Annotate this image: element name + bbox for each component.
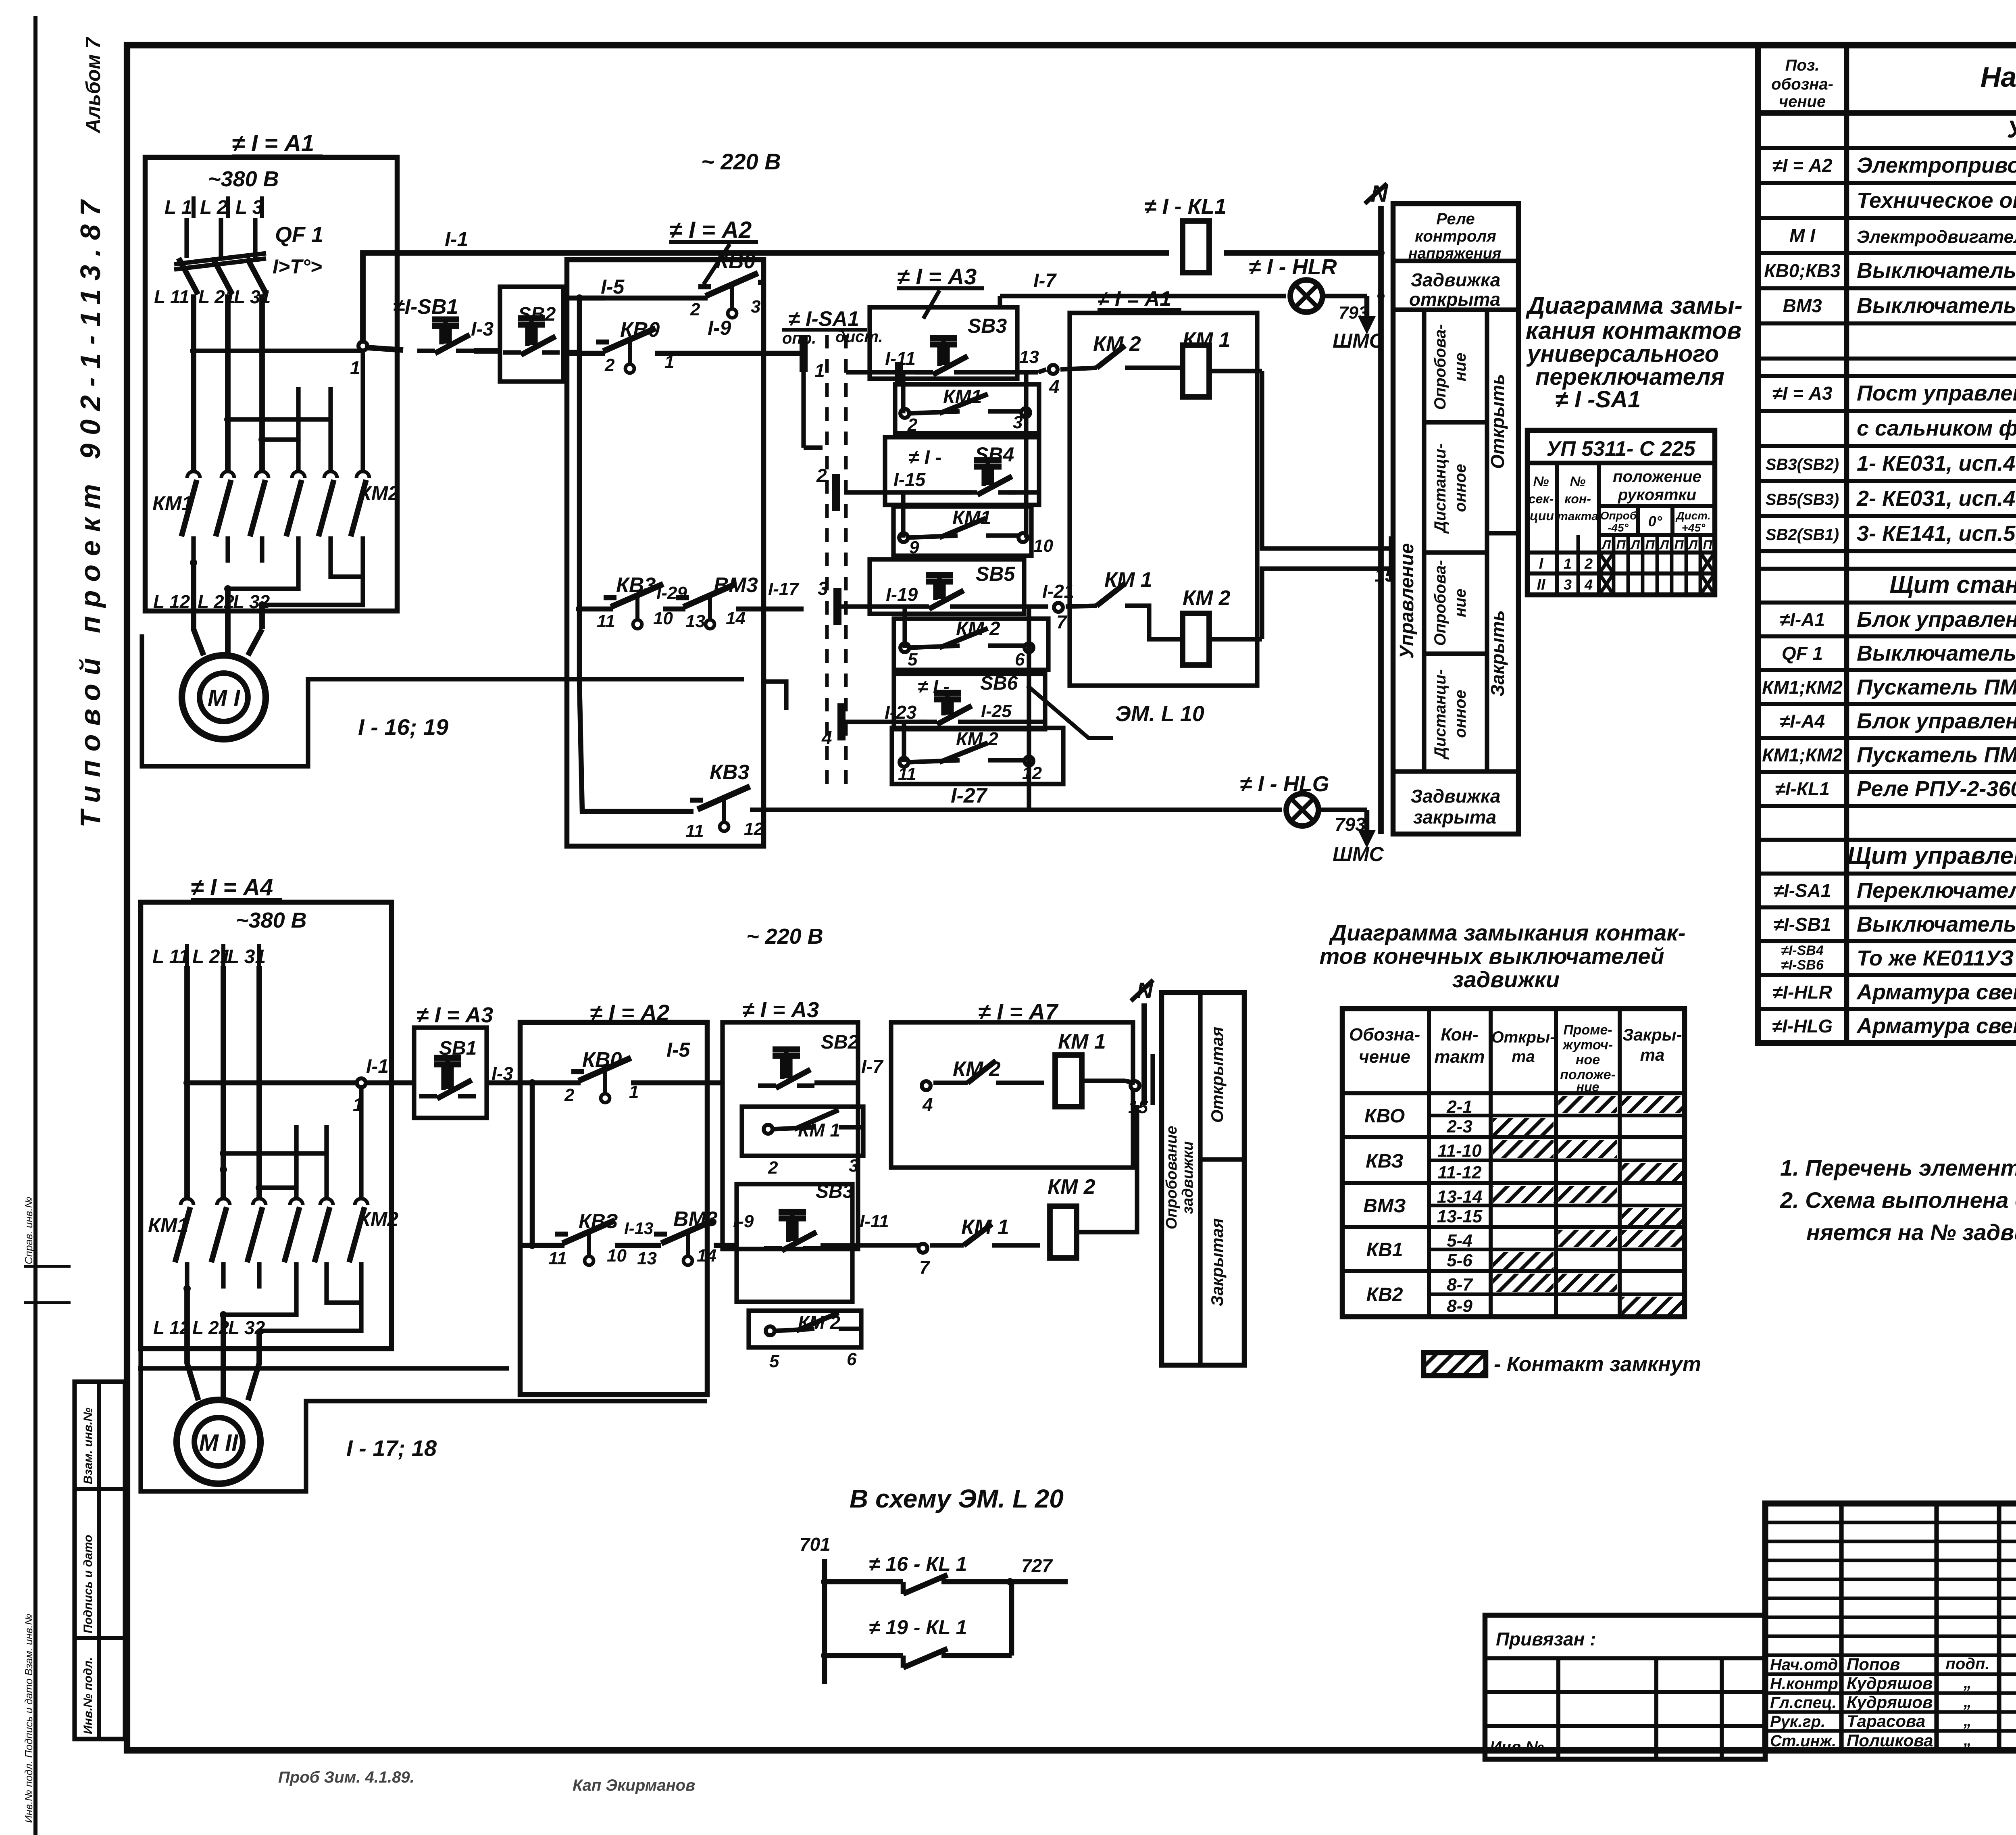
svg-text:КМ 2: КМ 2: [953, 1057, 1001, 1081]
svg-text:~ 220 В: ~ 220 В: [701, 149, 781, 174]
svg-text:I-9: I-9: [708, 317, 731, 339]
svg-text:3: 3: [1013, 413, 1023, 432]
svg-text:КМ1;КМ2: КМ1;КМ2: [1762, 744, 1843, 765]
svg-text:2-3: 2-3: [1446, 1117, 1472, 1136]
svg-text:положение: положение: [1613, 468, 1702, 486]
svg-text:Пускатель ПМА150104В, ~220В: Пускатель ПМА150104В, ~220В: [1857, 743, 2016, 767]
svg-text:ЭМ. L 10: ЭМ. L 10: [1115, 702, 1204, 726]
svg-text:№: №: [1533, 474, 1549, 489]
svg-text:ции: ции: [1530, 509, 1554, 523]
svg-text:727: 727: [1021, 1555, 1053, 1576]
svg-text:Рук.гр.: Рук.гр.: [1770, 1713, 1825, 1731]
svg-text:6: 6: [1015, 650, 1025, 669]
svg-text:≠I-HLG: ≠I-HLG: [1772, 1016, 1833, 1036]
svg-text:Дистанци-: Дистанци-: [1431, 669, 1449, 759]
svg-text:КМ 1: КМ 1: [1058, 1030, 1106, 1053]
svg-text:I - 17; 18: I - 17; 18: [346, 1435, 437, 1461]
svg-text:0°: 0°: [1648, 513, 1662, 530]
svg-text:5-6: 5-6: [1447, 1251, 1472, 1270]
svg-text:≠I-SB1: ≠I-SB1: [393, 295, 458, 319]
svg-text:Закрыть: Закрыть: [1487, 610, 1508, 696]
svg-text:П: П: [1703, 538, 1712, 552]
svg-text:ШМС: ШМС: [1333, 843, 1384, 865]
svg-text:3: 3: [818, 578, 828, 599]
svg-text:1: 1: [350, 357, 360, 378]
svg-text:≠I = А2: ≠I = А2: [1772, 155, 1833, 176]
svg-text:Реле РПУ-2-36020УЗБ, 2р.конт.,: Реле РПУ-2-36020УЗБ, 2р.конт.,~220В: [1857, 777, 2016, 801]
svg-text:8-7: 8-7: [1447, 1275, 1473, 1295]
svg-text:1: 1: [814, 360, 825, 381]
svg-text:Выключатель конечный: Выключатель конечный: [1857, 259, 2016, 283]
svg-text:2: 2: [816, 465, 827, 486]
svg-text:КВ0: КВ0: [620, 318, 660, 342]
svg-text:≠ 16 - КL 1: ≠ 16 - КL 1: [869, 1553, 967, 1575]
svg-text:≠I = А3: ≠I = А3: [1772, 383, 1833, 404]
svg-text:„: „: [1963, 1693, 1972, 1711]
svg-text:КВ3: КВ3: [616, 573, 656, 597]
svg-text:КМ 1: КМ 1: [961, 1216, 1009, 1239]
svg-text:3- КЕ141, исп.5, к „стоп”: 3- КЕ141, исп.5, к „стоп”: [1857, 521, 2016, 546]
svg-text:SB2: SB2: [821, 1032, 859, 1053]
svg-text:Закры-: Закры-: [1622, 1025, 1682, 1044]
svg-text:11: 11: [898, 764, 916, 784]
svg-text:„: „: [1963, 1674, 1972, 1692]
svg-text:ние: ние: [1452, 353, 1469, 382]
svg-text:≠I-SB6: ≠I-SB6: [1781, 957, 1824, 973]
svg-text:QF 1: QF 1: [1782, 643, 1823, 664]
svg-text:Щит станций управления ЩСУ: Щит станций управления ЩСУ: [1889, 571, 2016, 598]
svg-text:Поз.: Поз.: [1785, 56, 1820, 74]
svg-text:Попов: Попов: [1847, 1655, 1900, 1674]
svg-text:кон-: кон-: [1564, 492, 1591, 506]
svg-text:Дист.: Дист.: [1675, 509, 1710, 522]
svg-text:То же КЕ011УЗ исп.4, 1з: То же КЕ011УЗ исп.4, 1з: [1857, 946, 2016, 970]
svg-text:≠I-HLR: ≠I-HLR: [1772, 982, 1832, 1003]
svg-text:Справ. инв.№: Справ. инв.№: [23, 1197, 35, 1264]
svg-text:10: 10: [653, 609, 673, 628]
svg-text:Гл.спец.: Гл.спец.: [1770, 1694, 1837, 1712]
svg-text:≠I-А4: ≠I-А4: [1780, 711, 1825, 732]
svg-text:12: 12: [1022, 763, 1042, 783]
svg-text:7: 7: [919, 1257, 931, 1278]
svg-text:5: 5: [769, 1351, 779, 1371]
svg-text:Управление: Управление: [1396, 543, 1418, 659]
svg-text:≠ I - HLR: ≠ I - HLR: [1249, 255, 1337, 279]
svg-text:Выключатель АЕ2026-10НУЗБ, Iр=: Выключатель АЕ2026-10НУЗБ, Iр=10А: [1857, 641, 2016, 665]
svg-text:Электропривод 87В085: Электропривод 87В085: [1857, 153, 2016, 177]
svg-text:Л: Л: [1601, 538, 1611, 552]
svg-text:I: I: [1539, 555, 1544, 572]
svg-text:SB6: SB6: [980, 673, 1018, 694]
svg-text:КВ2: КВ2: [1366, 1284, 1403, 1305]
svg-text:2: 2: [907, 415, 918, 435]
svg-text:11-10: 11-10: [1437, 1141, 1482, 1161]
svg-text:4: 4: [1584, 576, 1593, 593]
svg-text:+45°: +45°: [1682, 521, 1706, 534]
svg-text:12: 12: [744, 819, 764, 839]
svg-text:≠ I = А2: ≠ I = А2: [590, 1000, 669, 1025]
svg-text:3: 3: [849, 1156, 858, 1176]
svg-text:опр.: опр.: [782, 329, 816, 347]
svg-text:4: 4: [922, 1094, 933, 1115]
svg-text:Обозна-: Обозна-: [1349, 1025, 1420, 1045]
svg-text:2- КЕ031, исп.4 ч „закрыть”: 2- КЕ031, исп.4 ч „закрыть”: [1856, 486, 2016, 511]
svg-text:793: 793: [1339, 303, 1368, 323]
svg-text:7: 7: [1056, 611, 1068, 632]
svg-text:11: 11: [685, 821, 704, 841]
svg-text:закрыта: закрыта: [1413, 807, 1496, 828]
svg-text:открыта: открыта: [1409, 289, 1500, 310]
svg-text:КВ1: КВ1: [1366, 1239, 1403, 1261]
svg-text:≠ I - HLG: ≠ I - HLG: [1240, 772, 1329, 796]
svg-text:У механизма: У механизма: [2007, 116, 2016, 143]
svg-text:701: 701: [800, 1534, 831, 1555]
svg-text:~ 220 В: ~ 220 В: [746, 924, 823, 949]
svg-text:SB2(SB1): SB2(SB1): [1766, 526, 1839, 544]
svg-text:L 31: L 31: [234, 286, 271, 307]
svg-text:П: П: [1645, 538, 1655, 552]
svg-text:Электродвигатель 4АХС100S4У3;~: Электродвигатель 4АХС100S4У3;~380В,N=3,2…: [1857, 227, 2016, 247]
svg-text:3: 3: [751, 297, 760, 317]
svg-text:КВ0: КВ0: [716, 250, 756, 273]
svg-text:Выключатель муфты: Выключатель муфты: [1857, 294, 2016, 318]
svg-text:КВО: КВО: [1364, 1105, 1405, 1127]
svg-text:Задвижка: Задвижка: [1411, 786, 1501, 807]
svg-text:L 12: L 12: [153, 591, 190, 612]
svg-text:та: та: [1512, 1048, 1535, 1066]
svg-text:≠ I = А3: ≠ I = А3: [742, 998, 819, 1022]
svg-text:ное: ное: [1576, 1052, 1600, 1068]
svg-text:Закрытая: Закрытая: [1208, 1218, 1227, 1307]
svg-text:8-9: 8-9: [1447, 1296, 1472, 1316]
svg-text:≠ I = А4: ≠ I = А4: [191, 874, 273, 901]
svg-text:4: 4: [1049, 376, 1060, 397]
svg-text:Техническое описание электропр: Техническое описание электропривода:: [1857, 188, 2016, 213]
svg-text:Переключатель УП5311-с225: Переключатель УП5311-с225: [1857, 878, 2016, 903]
svg-text:„: „: [1963, 1731, 1972, 1749]
svg-text:1: 1: [353, 1094, 363, 1115]
svg-text:КМ 2: КМ 2: [1183, 586, 1231, 610]
svg-text:тов конечных выключателей: тов конечных выключателей: [1319, 943, 1664, 969]
svg-text:11: 11: [597, 611, 615, 631]
svg-text:Проме-: Проме-: [1563, 1022, 1612, 1038]
svg-text:ВМ3: ВМ3: [1783, 295, 1822, 316]
svg-text:≠ 19 - КL 1: ≠ 19 - КL 1: [869, 1616, 967, 1639]
svg-text:М II: М II: [199, 1430, 239, 1456]
svg-text:Инв.№ подл. Подпись и дато Вза: Инв.№ подл. Подпись и дато Взам. инв.№: [23, 1614, 35, 1823]
svg-text:Пускатель ПМЛ150104В, ~220В: Пускатель ПМЛ150104В, ~220В: [1857, 675, 2016, 699]
svg-text:1- КЕ031, исп.4 ч „открыть”: 1- КЕ031, исп.4 ч „открыть”: [1857, 451, 2016, 475]
svg-text:сек-: сек-: [1529, 492, 1554, 506]
svg-text:SB3: SB3: [816, 1181, 854, 1202]
svg-text:КМ1: КМ1: [152, 492, 193, 515]
svg-text:≠I-SA1: ≠I-SA1: [1774, 880, 1831, 901]
svg-text:I-5: I-5: [601, 275, 625, 298]
svg-text:≠I-А1: ≠I-А1: [1780, 609, 1825, 630]
svg-text:КМ2: КМ2: [359, 482, 399, 505]
svg-text:контроля: контроля: [1415, 227, 1496, 245]
svg-text:Кудряшов: Кудряшов: [1847, 1674, 1933, 1693]
svg-text:М I: М I: [1789, 225, 1816, 246]
svg-text:такт: такт: [1434, 1047, 1485, 1067]
svg-text:II: II: [1537, 576, 1546, 593]
svg-text:Н.контр: Н.контр: [1770, 1675, 1838, 1693]
svg-text:ШМС: ШМС: [1333, 329, 1384, 352]
svg-text:13: 13: [1019, 347, 1039, 367]
svg-text:рукоятки: рукоятки: [1618, 486, 1696, 504]
svg-text:Полшкова: Полшкова: [1847, 1731, 1933, 1750]
svg-text:КВЗ: КВЗ: [579, 1210, 618, 1232]
svg-text:КМ1;КМ2: КМ1;КМ2: [1762, 677, 1843, 698]
svg-text:Проб Зим. 4.1.89.: Проб Зим. 4.1.89.: [278, 1768, 414, 1786]
svg-text:SB3(SB2): SB3(SB2): [1766, 456, 1839, 473]
svg-text:Наименование: Наименование: [1981, 61, 2016, 93]
svg-text:задвижки: задвижки: [1179, 1141, 1196, 1214]
svg-text:I-23: I-23: [885, 702, 917, 723]
svg-text:Кон-: Кон-: [1441, 1025, 1478, 1045]
svg-text:I>T°>: I>T°>: [273, 255, 322, 278]
svg-text:13: 13: [685, 611, 705, 631]
svg-text:L 1: L 1: [165, 197, 192, 218]
svg-text:I-21: I-21: [1042, 581, 1074, 602]
svg-text:- Контакт замкнут: - Контакт замкнут: [1494, 1353, 1701, 1376]
svg-text:В схему ЭМ. L 20: В схему ЭМ. L 20: [850, 1484, 1064, 1513]
svg-text:Открыть: Открыть: [1487, 374, 1508, 469]
svg-text:I-15: I-15: [893, 469, 926, 490]
svg-text:КМ1: КМ1: [148, 1214, 188, 1237]
svg-text:Щит управления и сигнализации: Щит управления и сигнализации ЩУС: [1847, 842, 2016, 869]
svg-text:SB5(SB3): SB5(SB3): [1766, 491, 1839, 509]
svg-text:~380 В: ~380 В: [236, 908, 307, 932]
svg-text:I-17: I-17: [768, 579, 800, 599]
svg-text:14: 14: [726, 609, 746, 628]
svg-text:I-7: I-7: [1033, 270, 1057, 292]
svg-text:Арматура светосигнальная АС12: Арматура светосигнальная АС12011У2: [1856, 980, 2016, 1004]
svg-text:I-5: I-5: [666, 1038, 691, 1061]
svg-text:Л: Л: [1630, 538, 1640, 552]
svg-text:УП 5311- С 225: УП 5311- С 225: [1546, 437, 1695, 461]
svg-text:КВЗ: КВЗ: [1366, 1151, 1404, 1172]
svg-text:QF 1: QF 1: [275, 223, 323, 247]
svg-text:с сальником ф 19 мм: с сальником ф 19 мм: [1857, 416, 2016, 440]
svg-text:L 11: L 11: [152, 946, 190, 968]
svg-text:дист.: дист.: [835, 328, 883, 346]
svg-text:„: „: [1963, 1712, 1972, 1730]
svg-text:такта: такта: [1557, 510, 1598, 523]
svg-text:2-1: 2-1: [1446, 1097, 1472, 1117]
svg-text:та: та: [1640, 1045, 1665, 1064]
svg-text:КМ 1: КМ 1: [1104, 568, 1152, 592]
svg-text:≠ I -SA1: ≠ I -SA1: [1555, 386, 1641, 413]
svg-text:13-15: 13-15: [1437, 1207, 1483, 1226]
svg-text:Кап Экирманов: Кап Экирманов: [573, 1777, 695, 1794]
svg-text:5-4: 5-4: [1447, 1231, 1472, 1251]
svg-text:КМ2: КМ2: [358, 1208, 398, 1230]
svg-text:Опробование: Опробование: [1163, 1126, 1180, 1230]
svg-text:2: 2: [604, 355, 615, 375]
svg-text:ВМ3: ВМ3: [673, 1207, 718, 1231]
svg-text:кания контактов: кания контактов: [1526, 317, 1741, 344]
svg-text:13-14: 13-14: [1437, 1187, 1483, 1207]
svg-text:2: 2: [690, 300, 700, 319]
svg-text:I-7: I-7: [861, 1056, 884, 1077]
svg-text:11: 11: [548, 1249, 567, 1268]
svg-text:L 11: L 11: [154, 286, 190, 307]
svg-text:КВ0;КВ3: КВ0;КВ3: [1764, 260, 1841, 281]
svg-text:I-9: I-9: [733, 1212, 754, 1231]
svg-text:напряжения: напряжения: [1408, 245, 1502, 262]
svg-text:≠ I - КL1: ≠ I - КL1: [1144, 194, 1227, 219]
svg-text:≠ I-SA1: ≠ I-SA1: [788, 307, 859, 331]
svg-text:онное: онное: [1452, 690, 1469, 738]
svg-text:≠ I = А3: ≠ I = А3: [897, 264, 977, 289]
svg-text:задвижки: задвижки: [1452, 967, 1560, 992]
svg-text:Инв.№: Инв.№: [1490, 1738, 1544, 1756]
svg-text:10: 10: [1033, 536, 1053, 556]
svg-text:3: 3: [1564, 576, 1572, 593]
svg-text:2: 2: [1584, 555, 1593, 572]
svg-text:Нач.отд: Нач.отд: [1770, 1656, 1838, 1674]
svg-text:Л: Л: [1688, 538, 1698, 552]
svg-text:Блок управления Б5437-3074ГУХЛ: Блок управления Б5437-3074ГУХЛ4: [1857, 607, 2016, 632]
svg-text:≠ I = А2: ≠ I = А2: [669, 217, 752, 243]
svg-text:Тарасова: Тарасова: [1847, 1712, 1925, 1731]
svg-text:Блок управления Б5438-3074ГУХЛ: Блок управления Б5438-3074ГУХЛ4: [1857, 709, 2016, 733]
svg-text:2. Схема выполнена для зад: 2. Схема выполнена для задвижек 16÷19, г…: [1780, 1187, 2016, 1213]
svg-text:Пост управления ПКУ15-21.131: Пост управления ПКУ15-21.131-54У2: [1857, 381, 2016, 405]
svg-text:КМ 2: КМ 2: [1048, 1175, 1095, 1199]
svg-text:≠ I = А1: ≠ I = А1: [1098, 287, 1171, 311]
svg-text:≠I-КL1: ≠I-КL1: [1775, 778, 1829, 799]
svg-text:I - 16; 19: I - 16; 19: [358, 714, 448, 740]
svg-text:Откры-: Откры-: [1491, 1028, 1556, 1046]
svg-text:1. Перечень элементов соста: 1. Перечень элементов составлен для одно…: [1780, 1155, 2016, 1180]
svg-text:ВМ3: ВМ3: [714, 573, 758, 597]
svg-text:онное: онное: [1452, 464, 1469, 512]
svg-text:подп.: подп.: [1945, 1655, 1989, 1673]
svg-text:чение: чение: [1779, 93, 1826, 111]
svg-text:Диаграмма замыкания контак-: Диаграмма замыкания контак-: [1329, 920, 1686, 945]
svg-text:11-12: 11-12: [1437, 1163, 1482, 1182]
svg-text:Реле: Реле: [1436, 210, 1475, 228]
svg-text:Открытая: Открытая: [1208, 1027, 1227, 1123]
svg-text:Взам. инв.№: Взам. инв.№: [81, 1408, 95, 1484]
svg-text:Дистанци-: Дистанци-: [1431, 443, 1449, 534]
svg-text:ВМЗ: ВМЗ: [1363, 1195, 1406, 1217]
svg-text:няется на № задвижки по пл: няется на № задвижки по плану (16,17,18,…: [1806, 1220, 2016, 1245]
svg-text:L 2: L 2: [200, 197, 228, 218]
svg-text:I-13: I-13: [624, 1219, 653, 1238]
svg-text:Подпись и дато: Подпись и дато: [81, 1535, 95, 1633]
svg-text:П: П: [1674, 538, 1684, 552]
svg-text:9: 9: [909, 538, 919, 557]
svg-text:П: П: [1616, 538, 1626, 552]
svg-text:Кудряшов: Кудряшов: [1847, 1693, 1933, 1712]
svg-text:-45°: -45°: [1608, 521, 1629, 534]
svg-text:Диаграмма замы-: Диаграмма замы-: [1525, 292, 1743, 319]
svg-text:Л: Л: [1659, 538, 1669, 552]
svg-text:≠ I = А1: ≠ I = А1: [232, 130, 314, 156]
svg-text:6: 6: [847, 1349, 857, 1369]
svg-text:5: 5: [908, 650, 918, 669]
svg-text:ние: ние: [1452, 589, 1469, 617]
svg-text:Привязан :: Привязан :: [1496, 1629, 1596, 1649]
svg-text:~380 В: ~380 В: [208, 167, 279, 191]
svg-text:2: 2: [768, 1158, 778, 1178]
svg-text:Выключатель КЕ011УЗ исп.5,1р,: Выключатель КЕ011УЗ исп.5,1р, „стоп”: [1857, 912, 2016, 936]
svg-text:I-19: I-19: [886, 584, 918, 605]
svg-text:универсального: универсального: [1526, 341, 1719, 367]
svg-text:SB5: SB5: [976, 563, 1015, 585]
svg-text:М I: М I: [208, 685, 241, 711]
svg-text:Опробова-: Опробова-: [1431, 560, 1449, 646]
svg-text:≠I-SB4: ≠I-SB4: [1781, 943, 1824, 958]
svg-text:14: 14: [697, 1246, 716, 1266]
svg-text:ние: ние: [1577, 1080, 1599, 1094]
svg-text:Инв.№ подл.: Инв.№ подл.: [81, 1657, 95, 1734]
svg-text:I-25: I-25: [981, 701, 1012, 721]
svg-text:I-3: I-3: [471, 319, 494, 340]
svg-text:обозна-: обозна-: [1771, 75, 1833, 93]
svg-text:≠ I = А7: ≠ I = А7: [978, 999, 1059, 1024]
svg-text:≠ I -: ≠ I -: [908, 447, 941, 468]
svg-text:4: 4: [821, 727, 832, 748]
svg-text:Ст.инж.: Ст.инж.: [1770, 1732, 1836, 1750]
svg-text:Арматура светосигнальная АС12: Арматура светосигнальная АС12013У2: [1856, 1014, 2016, 1038]
svg-text:SB3: SB3: [968, 315, 1007, 337]
svg-text:Задвижка: Задвижка: [1411, 269, 1501, 290]
svg-text:≠ I = А3: ≠ I = А3: [417, 1003, 493, 1027]
svg-text:Опроб: Опроб: [1600, 509, 1637, 522]
svg-text:2: 2: [564, 1085, 575, 1105]
svg-text:13: 13: [637, 1249, 657, 1268]
svg-text:I-11: I-11: [860, 1212, 889, 1231]
svg-text:КВ3: КВ3: [710, 761, 750, 784]
svg-text:I-1: I-1: [445, 228, 468, 250]
svg-text:Типовой проект 902-1-113.87: Типовой проект 902-1-113.87: [75, 192, 106, 828]
svg-text:1: 1: [1564, 555, 1572, 572]
svg-text:I-1: I-1: [366, 1056, 389, 1077]
svg-text:жуточ-: жуточ-: [1562, 1037, 1613, 1053]
svg-text:I-27: I-27: [951, 784, 988, 807]
svg-text:Альбом 7: Альбом 7: [82, 37, 104, 134]
svg-text:≠I-SB1: ≠I-SB1: [1774, 914, 1831, 935]
svg-text:№: №: [1570, 474, 1586, 489]
svg-text:793: 793: [1335, 814, 1366, 835]
svg-text:Опробова-: Опробова-: [1431, 324, 1449, 410]
svg-text:L 3: L 3: [235, 197, 263, 218]
svg-text:чение: чение: [1359, 1047, 1410, 1067]
svg-text:10: 10: [607, 1246, 627, 1266]
svg-text:КВ0: КВ0: [582, 1048, 622, 1072]
